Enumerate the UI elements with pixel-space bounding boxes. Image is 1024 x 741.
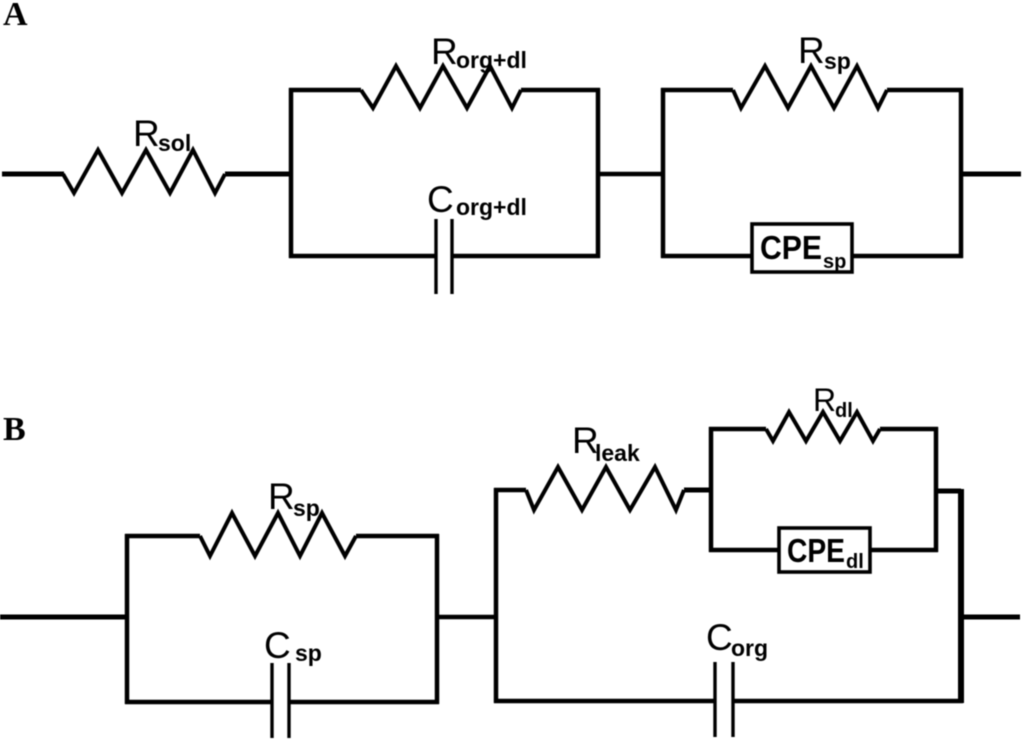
svg-text:dl: dl — [846, 551, 864, 573]
label CPE_sp — [760, 229, 846, 273]
wire: inner box top left — [709, 427, 766, 432]
wire: circuit A left lead — [2, 172, 64, 177]
label C_sp — [264, 625, 322, 666]
svg-text:sp: sp — [823, 251, 846, 273]
wire: box B1 bottom left — [125, 700, 272, 705]
label R_org+dl — [431, 31, 527, 73]
wire: box A1 to box A2 — [598, 172, 663, 177]
svg-text:CPE: CPE — [787, 532, 845, 569]
label R_sol — [133, 113, 191, 156]
wire: inner box bottom left — [709, 548, 781, 553]
capacitor C_org — [715, 662, 733, 737]
resistor R_sol — [63, 150, 225, 193]
capacitor C_org+dl — [436, 219, 452, 294]
node: box A1 right rail — [596, 88, 601, 258]
capacitor C_sp — [272, 663, 289, 738]
svg-text:C: C — [706, 617, 733, 658]
node: inner box left rail — [709, 427, 714, 552]
label R_leak — [572, 420, 640, 466]
wire: circuit A right lead — [961, 172, 1021, 177]
CPE element CPE_dl — [779, 528, 870, 572]
resistor R_sp (circuit B) — [200, 513, 356, 556]
CPE element CPE_sp — [752, 224, 852, 272]
svg-text:R: R — [813, 382, 836, 418]
node: box A2 right rail — [959, 88, 964, 258]
wire: box A1 top left — [289, 88, 361, 93]
resistor R_dl — [766, 412, 880, 441]
svg-text:R: R — [268, 476, 295, 517]
wire: box B1 bottom right — [289, 700, 439, 705]
wire: box B1 to network B2 — [437, 615, 496, 620]
resistor R_sp (circuit A) — [733, 66, 887, 108]
wire: box A1 top right — [521, 88, 600, 93]
node: box A1 left rail — [289, 88, 294, 258]
svg-text:CPE: CPE — [760, 229, 822, 266]
label CPE_dl — [787, 532, 864, 573]
svg-text:sp: sp — [295, 640, 322, 666]
label R_sp (circuit A) — [798, 30, 851, 74]
svg-text:C: C — [264, 625, 291, 666]
wire: C_org branch right — [733, 699, 963, 704]
svg-text:B: B — [3, 411, 26, 448]
resistor R_leak — [526, 467, 684, 510]
svg-text:org+dl: org+dl — [456, 194, 527, 220]
svg-text:sp: sp — [824, 48, 851, 74]
wire: box A1 bottom right — [452, 254, 600, 259]
wire: inner box to right rail — [936, 489, 961, 494]
svg-text:sol: sol — [158, 130, 191, 156]
wire: box B1 top right — [356, 534, 439, 539]
wire: box A2 bottom left — [661, 254, 754, 259]
node: network B2 left rail — [494, 488, 499, 703]
node: network B2 right rail — [958, 489, 964, 703]
label C_org — [706, 617, 768, 661]
svg-text:sp: sp — [293, 495, 320, 521]
wire: box A2 top right — [887, 88, 963, 93]
wire: circuit B right lead — [961, 615, 1020, 620]
wire: box A1 bottom left — [289, 254, 436, 259]
wire: inner box bottom right — [870, 548, 938, 553]
svg-text:A: A — [3, 0, 28, 33]
svg-text:org+dl: org+dl — [456, 47, 527, 73]
node: box B1 right rail — [435, 534, 440, 704]
wire: circuit B left lead — [0, 615, 127, 620]
svg-text:org: org — [731, 635, 768, 661]
svg-text:C: C — [427, 179, 454, 220]
label R_dl — [813, 382, 853, 422]
svg-text:leak: leak — [595, 440, 640, 466]
wire: inner box top right — [880, 427, 938, 432]
node: box B1 left rail — [125, 534, 130, 704]
wire: R_leak branch left — [494, 488, 526, 493]
node: box A2 left rail — [661, 88, 666, 258]
wire: box A2 bottom right — [852, 254, 963, 259]
svg-text:dl: dl — [835, 400, 853, 422]
resistor R_org+dl — [361, 66, 521, 108]
svg-text:R: R — [431, 31, 458, 72]
wire: box B1 top left — [125, 534, 200, 539]
wire: R_leak to inner box — [684, 488, 713, 493]
label R_sp (circuit B) — [268, 476, 320, 521]
node: inner box right rail — [934, 427, 939, 552]
wire: C_org branch left — [494, 699, 715, 704]
label C_org+dl — [427, 179, 527, 220]
wire: R_sol to box A1 — [225, 172, 291, 177]
wire: box A2 top left — [661, 88, 733, 93]
svg-text:R: R — [133, 113, 160, 154]
svg-text:R: R — [798, 30, 825, 71]
